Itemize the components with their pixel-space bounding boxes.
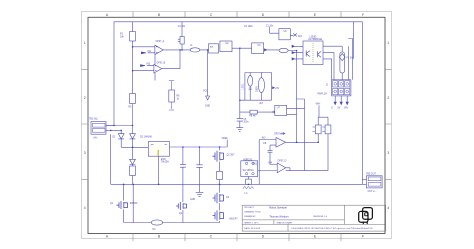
svg-text:Q2 2N7: Q2 2N7 xyxy=(227,155,236,157)
svg-text:FB: FB xyxy=(263,143,266,145)
svg-text:DRAWN BY:: DRAWN BY: xyxy=(244,215,256,218)
svg-text:OUT +/-: OUT +/- xyxy=(368,191,376,193)
svg-text:U4 HBRIDGE: U4 HBRIDGE xyxy=(308,39,323,41)
svg-text:PROJECT:: PROJECT: xyxy=(244,207,254,209)
svg-text:C4 100n: C4 100n xyxy=(244,26,253,28)
svg-text:LED1: LED1 xyxy=(242,83,245,90)
svg-text:5V: 5V xyxy=(338,108,341,110)
svg-text:VIN: VIN xyxy=(344,108,348,110)
svg-text:OP07_A: OP07_A xyxy=(156,40,165,43)
svg-text:SCL: SCL xyxy=(298,36,303,38)
svg-text:DESIGNED WITH UPVERTER FIND I: DESIGNED WITH UPVERTER FIND IT AT upvert… xyxy=(292,227,374,230)
svg-text:+5V: +5V xyxy=(275,88,280,90)
svg-text:F: F xyxy=(362,13,364,17)
svg-text:TB2-OUT: TB2-OUT xyxy=(366,173,376,175)
svg-text:PWR_5V: PWR_5V xyxy=(318,93,328,95)
svg-text:1: 1 xyxy=(387,41,389,45)
svg-text:IRF540: IRF540 xyxy=(130,203,138,205)
svg-text:L293D: L293D xyxy=(310,36,317,38)
svg-text:330R: 330R xyxy=(255,86,258,92)
svg-text:OP07_B: OP07_B xyxy=(157,63,166,65)
svg-text:DRAWING TITLE:: DRAWING TITLE: xyxy=(244,211,261,214)
svg-text:GND: GND xyxy=(190,199,195,201)
svg-text:OP07_D: OP07_D xyxy=(278,161,287,163)
svg-text:3: 3 xyxy=(387,151,389,155)
svg-text:SHEET: 1 OF 1: SHEET: 1 OF 1 xyxy=(244,222,259,224)
svg-text:DATE: 30.9.2016: DATE: 30.9.2016 xyxy=(244,227,261,230)
svg-text:+IN -: +IN - xyxy=(93,137,98,139)
svg-text:D2 1N4148: D2 1N4148 xyxy=(140,137,152,139)
svg-text:1: 1 xyxy=(84,41,86,45)
svg-text:4: 4 xyxy=(387,206,389,210)
svg-text:R8 4k7: R8 4k7 xyxy=(249,116,257,118)
svg-text:100n: 100n xyxy=(243,122,249,124)
svg-text:HB1 R7: HB1 R7 xyxy=(230,218,239,220)
svg-text:2: 2 xyxy=(387,96,389,100)
svg-text:1: 1 xyxy=(151,144,152,146)
svg-text:Thomas Windom: Thomas Windom xyxy=(269,214,289,218)
svg-text:F: F xyxy=(362,235,364,239)
svg-text:GND: GND xyxy=(205,105,210,107)
svg-text:VREF: VREF xyxy=(222,138,229,140)
svg-text:HDR2X2: HDR2X2 xyxy=(243,159,253,161)
svg-text:F1 2A: F1 2A xyxy=(347,57,354,60)
svg-text:Robot Sweeper: Robot Sweeper xyxy=(269,205,287,209)
svg-text:G: G xyxy=(331,108,333,110)
svg-text:3: 3 xyxy=(84,151,86,155)
svg-text:REVISION: 1.0: REVISION: 1.0 xyxy=(313,216,328,218)
svg-text:C1 10n: C1 10n xyxy=(266,25,274,27)
svg-text:STATUS: DRAFT: STATUS: DRAFT xyxy=(277,221,294,224)
svg-text:OP07_C: OP07_C xyxy=(274,134,283,136)
svg-text:2: 2 xyxy=(84,96,86,100)
svg-text:79L05A: 79L05A xyxy=(161,161,169,164)
svg-text:4: 4 xyxy=(84,206,86,210)
svg-text:Sw 180/1A: Sw 180/1A xyxy=(243,169,255,172)
svg-text:SW1: SW1 xyxy=(252,163,258,165)
svg-text:VM+: VM+ xyxy=(316,103,321,105)
svg-text:VCC: VCC xyxy=(203,90,208,92)
svg-text:TB1-1k2: TB1-1k2 xyxy=(89,119,98,121)
svg-text:C2 10n: C2 10n xyxy=(178,26,186,28)
